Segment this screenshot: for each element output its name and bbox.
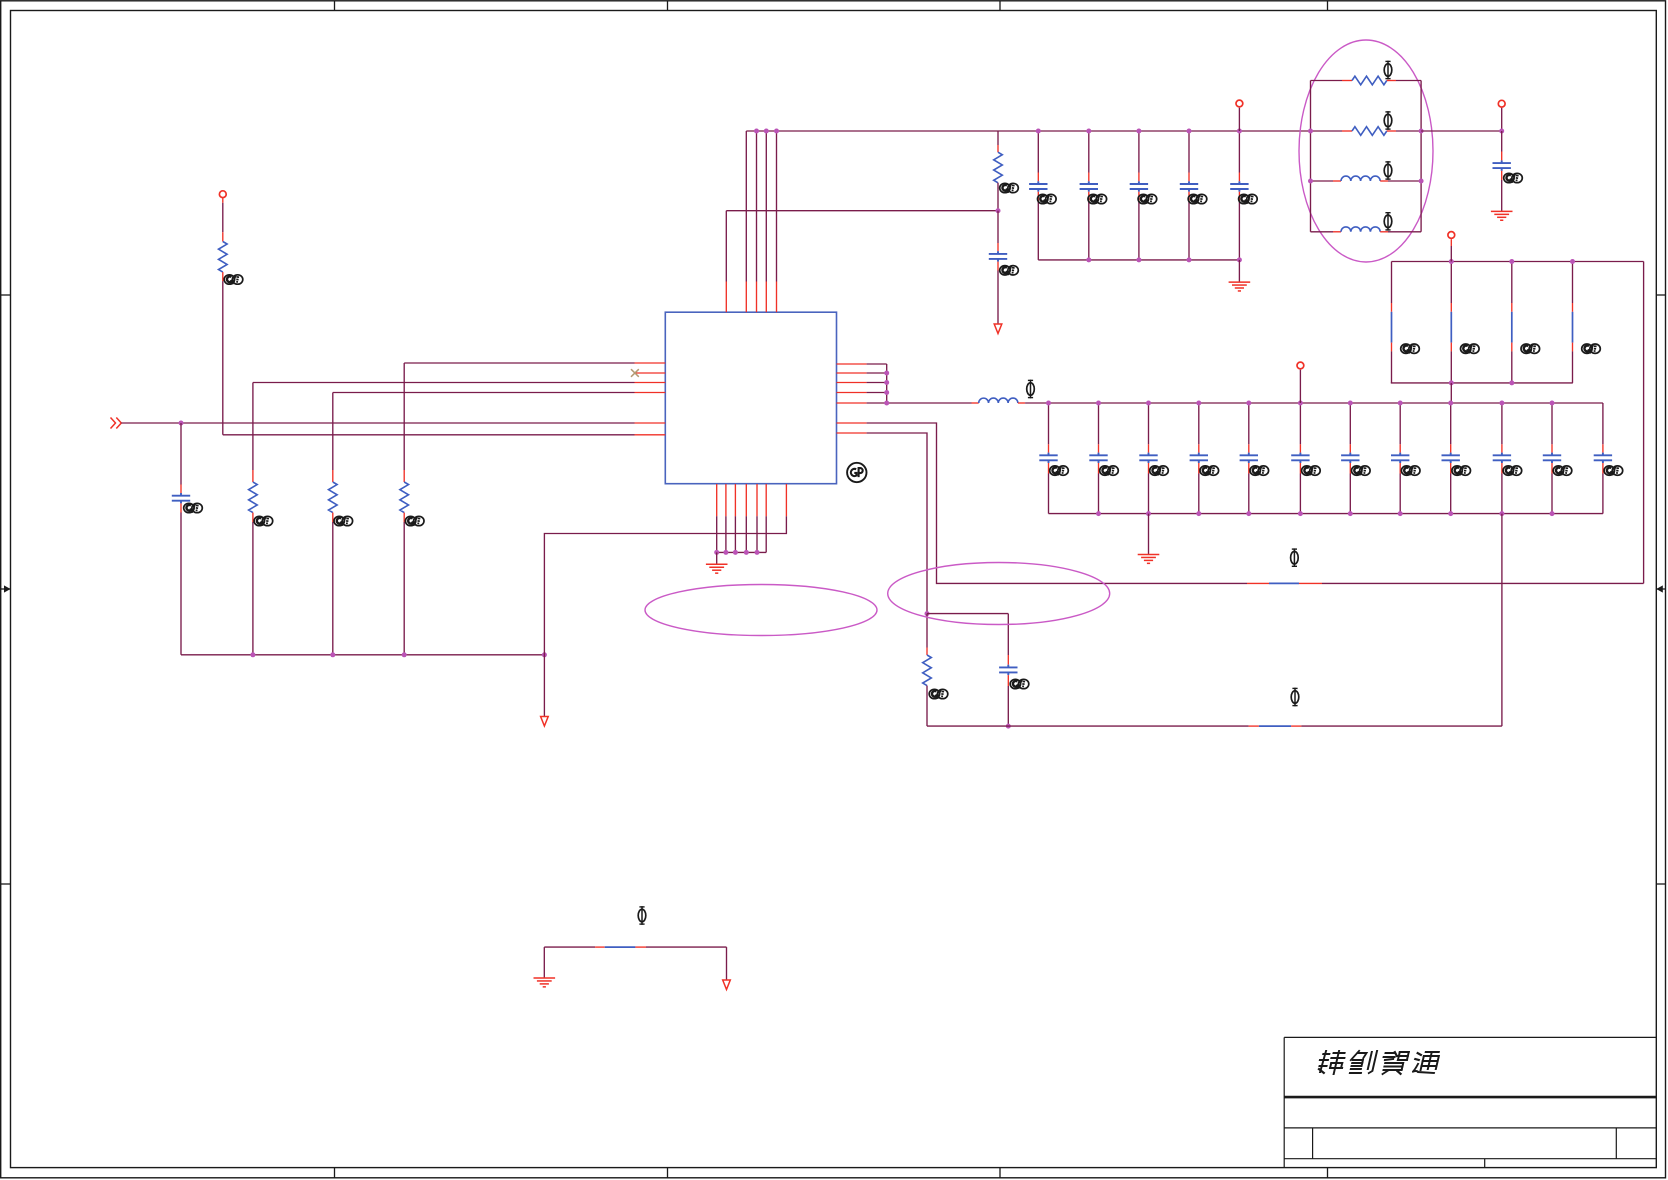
wire U1 left pin1 net y363 xyxy=(404,362,634,364)
ground GND4 xyxy=(1501,207,1503,211)
label C5 value xyxy=(1138,194,1157,204)
net tie wire y947.1 xyxy=(544,946,595,948)
capacitor C5 xyxy=(1138,131,1140,173)
label C6 value xyxy=(1188,194,1207,204)
node cap row bottom rail xyxy=(1448,511,1453,516)
node cap row bottom rail xyxy=(1246,511,1251,516)
jumper J6 xyxy=(1249,725,1259,727)
node rail y131 cap C3 xyxy=(1036,129,1041,134)
node input net x181 xyxy=(179,421,184,426)
label C14 value xyxy=(1302,466,1321,476)
node cap row bottom rail xyxy=(1348,511,1353,516)
wire U1 right pin7 net xyxy=(837,432,867,434)
node cap row top rail xyxy=(1046,401,1051,406)
label C12 value xyxy=(1200,466,1219,476)
label J7 value xyxy=(638,906,646,925)
node cap row top rail xyxy=(1246,401,1251,406)
node 5-cap rail ground xyxy=(1237,257,1242,262)
wire tie box2 to cap rail xyxy=(1450,383,1452,403)
zone ticks right edge xyxy=(1656,295,1665,884)
wire U1 top pin3 riser x756.5 xyxy=(756,131,758,282)
capacitor C21 xyxy=(927,613,1008,615)
node cap row bottom rail xyxy=(1499,511,1504,516)
power arrow A1 xyxy=(994,324,1002,334)
no-connect stub pin2 xyxy=(635,372,666,374)
node cap row bottom rail xyxy=(1398,511,1403,516)
resistor R2 xyxy=(252,383,254,471)
jumper J4 xyxy=(1572,262,1574,304)
junction dots bus x886.7 xyxy=(884,371,889,376)
label C8 value xyxy=(1504,173,1523,183)
resistor R7 rung xyxy=(1311,130,1343,132)
resistor R4 xyxy=(403,363,405,470)
power port P3 xyxy=(1498,100,1505,107)
node cap row bottom rail xyxy=(1146,511,1151,516)
node C21 bottom xyxy=(1006,724,1011,729)
node cap row bottom rail xyxy=(1298,511,1303,516)
wire U1 bottom pin x725.9 xyxy=(725,484,727,516)
wire J6 to drop x1501.9 xyxy=(1301,725,1502,727)
wire 5-cap bottom rail y259.9 xyxy=(1038,259,1239,261)
wire box right rail x1421.1 xyxy=(1420,81,1422,232)
no-connect X xyxy=(631,369,639,377)
inductor L2 rung xyxy=(1311,231,1334,233)
power port P2 xyxy=(1236,100,1243,107)
label J5 value xyxy=(1291,548,1299,567)
capacitor C4 xyxy=(1088,131,1090,173)
label L2 value xyxy=(1384,212,1392,231)
label J1 value xyxy=(1401,344,1420,354)
wire P2 to rail xyxy=(1238,108,1240,131)
jumper J3 xyxy=(1511,262,1513,304)
capacitor C3 xyxy=(1037,131,1039,173)
capacitor C18 xyxy=(1501,403,1503,444)
wire P4 to cap rail xyxy=(1299,370,1301,403)
highlight ellipse E1 xyxy=(1299,40,1433,262)
wire rail y131 right of box xyxy=(1421,130,1502,132)
capacitor C20 xyxy=(1602,403,1604,444)
net tie right drop xyxy=(726,947,728,980)
capacitor C1 xyxy=(180,423,182,485)
label R4 value xyxy=(405,516,424,526)
junction dots box rails xyxy=(1308,129,1313,134)
capacitor C7 xyxy=(1238,131,1240,173)
label J6 value xyxy=(1291,688,1299,707)
wire U1 top pin4 riser x766.3 xyxy=(765,131,767,282)
node bottom pin tie left xyxy=(714,550,719,555)
junction dots on rail y131 xyxy=(754,129,759,134)
node cap row top rail xyxy=(1550,401,1555,406)
node cap row top rail xyxy=(1499,401,1504,406)
net tie left drop xyxy=(543,947,545,978)
label R5 value xyxy=(1000,183,1019,193)
label R3 value xyxy=(334,516,353,526)
resistor R3 xyxy=(332,393,334,471)
wire U1 bottom pin x735.4 xyxy=(734,484,736,516)
wire bottom pin tie y552.4 xyxy=(717,551,767,553)
node cap row top rail xyxy=(1096,401,1101,406)
label C17 value xyxy=(1452,466,1471,476)
capacitor C2 xyxy=(997,211,999,243)
wire U1 left pin6 net y434.8 xyxy=(223,434,635,436)
label C7 value xyxy=(1239,194,1258,204)
label C21 value xyxy=(1010,679,1029,689)
wire right drop x1643.6 xyxy=(1643,262,1645,584)
wire U1 top pin1 riser x726.3 xyxy=(725,211,727,282)
junction dots 5-cap bottom rail xyxy=(1086,257,1091,262)
wire bottom-left rail y654.8 xyxy=(181,654,544,656)
label R8 value xyxy=(929,689,948,699)
label C13 value xyxy=(1250,466,1269,476)
zone ticks top edge xyxy=(335,1,1328,11)
node cap row top rail xyxy=(1298,401,1303,406)
highlight ellipse E3 xyxy=(888,563,1110,625)
node rail y131 cap C4 xyxy=(1086,129,1091,134)
label R6 value xyxy=(1384,61,1392,80)
node cap row top rail xyxy=(1398,401,1403,406)
node cap row top rail xyxy=(1146,401,1151,406)
capacitor C16 xyxy=(1399,403,1401,444)
wire U1 right pin6 net xyxy=(837,422,867,424)
label L3 value xyxy=(1027,380,1035,399)
node cap row bottom rail xyxy=(1550,511,1555,516)
wire U1 bottom pin x716.7 xyxy=(716,484,718,516)
label C1 value xyxy=(184,503,203,513)
jumper J7 xyxy=(595,946,605,948)
power port P1 xyxy=(219,191,226,198)
resistor R8 xyxy=(926,614,928,648)
capacitor C12 xyxy=(1198,403,1200,444)
IC U1 xyxy=(665,312,836,484)
wire bottom net rail y726.1 xyxy=(927,725,1249,727)
wire U1 bottom pin x746.3 xyxy=(745,484,747,516)
label L1 value xyxy=(1384,161,1392,180)
center arrow right edge xyxy=(1656,585,1665,592)
input connector chevrons xyxy=(111,418,122,429)
capacitor C17 xyxy=(1450,403,1452,444)
label C11 value xyxy=(1150,466,1169,476)
ground GND1 xyxy=(716,552,718,564)
label J2 value xyxy=(1461,344,1480,354)
wire P5 to box2 xyxy=(1450,239,1452,246)
inductor L1 rung xyxy=(1311,180,1334,182)
capacitor C9 xyxy=(1048,403,1050,444)
resistor R6 rung xyxy=(1311,80,1343,82)
node rail y131 cap C6 xyxy=(1187,129,1192,134)
jumper J2 xyxy=(1450,262,1452,304)
company logo text 1 xyxy=(1317,1051,1346,1074)
wire box left rail x1310.5 xyxy=(1310,81,1312,232)
node cap row bottom rail xyxy=(1196,511,1201,516)
ground GND3 xyxy=(1148,514,1150,555)
junction dots bottom-left rail xyxy=(250,652,255,657)
zone ticks left edge xyxy=(1,295,11,884)
title block xyxy=(1284,1037,1656,1167)
wire rail VDD top y131 xyxy=(746,130,1310,132)
label J3 value xyxy=(1521,344,1540,354)
power arrow A2 xyxy=(541,717,549,727)
wire U1 bottom pin x757.0 xyxy=(756,484,758,516)
node junction x927 y613.6 xyxy=(925,611,930,616)
node rail y131 cap C7 xyxy=(1237,129,1242,134)
wire cap row top rail y403 xyxy=(1049,402,1603,404)
junction dots bottom pin tie xyxy=(723,550,728,555)
capacitor C19 xyxy=(1551,403,1553,444)
capacitor C15 xyxy=(1349,403,1351,444)
wire U1 top pin2 riser x746.3 xyxy=(745,131,747,282)
resistor R1 xyxy=(222,198,224,203)
label R2 value xyxy=(254,516,273,526)
node cap row bottom rail xyxy=(1096,511,1101,516)
label C10 value xyxy=(1100,466,1119,476)
power arrow A3 xyxy=(723,980,731,990)
label C16 value xyxy=(1401,466,1420,476)
junction dots box2 bottom rail xyxy=(1449,380,1454,385)
capacitor C8 xyxy=(1501,108,1503,131)
marker GP xyxy=(847,463,866,482)
zone ticks bottom edge xyxy=(335,1168,1328,1178)
label C15 value xyxy=(1352,466,1371,476)
jumper J5 xyxy=(1247,582,1269,584)
capacitor C11 xyxy=(1148,403,1150,444)
wire bus vertical x886.7 xyxy=(886,364,888,403)
capacitor C13 xyxy=(1248,403,1250,444)
label C20 value xyxy=(1604,466,1623,476)
inductor L3 xyxy=(972,402,979,404)
label C9 value xyxy=(1050,466,1069,476)
wire cap row bottom rail y513.6 xyxy=(1049,513,1603,515)
node cap row top rail xyxy=(1448,401,1453,406)
wire box2 bottom rail y382.9 xyxy=(1391,382,1573,384)
node cap row top rail xyxy=(1196,401,1201,406)
capacitor C14 xyxy=(1299,403,1301,444)
node cap row top rail xyxy=(1348,401,1353,406)
wire U1 left pin3 net y382.5 xyxy=(253,382,635,384)
power port P4 xyxy=(1297,362,1304,369)
net tie wire right xyxy=(646,946,727,948)
wire cap row drop x1501.9 xyxy=(1501,514,1503,727)
bus right of U1 pins1-4 xyxy=(837,363,867,365)
label C19 value xyxy=(1553,466,1572,476)
wire U1 bottom pin7 net xyxy=(785,484,787,516)
wire J5 to right drop xyxy=(1322,582,1644,584)
ground GND5 xyxy=(534,978,556,987)
label C3 value xyxy=(1038,194,1057,204)
junction dots box2 top rail xyxy=(1449,259,1454,264)
wire box2 top rail y261.5 xyxy=(1392,261,1644,263)
wire U1 bottom pin x766.2 xyxy=(765,484,767,516)
capacitor C10 xyxy=(1098,403,1100,444)
center arrow left edge xyxy=(1,585,11,592)
highlight ellipse E2 xyxy=(645,585,877,636)
wire input net y423 xyxy=(121,422,634,424)
capacitor C6 xyxy=(1188,131,1190,173)
wire branch y210.7 xyxy=(726,210,998,212)
wire U1 right pin5 net y403 xyxy=(837,402,867,404)
node junction R5/C2 xyxy=(996,208,1001,213)
label C4 value xyxy=(1088,194,1107,204)
label R1 value xyxy=(224,275,243,285)
ground GND2 xyxy=(1238,260,1240,282)
jumper J1 xyxy=(1391,262,1393,304)
node rail y131 cap C5 xyxy=(1136,129,1141,134)
label J4 value xyxy=(1582,344,1601,354)
label C2 value xyxy=(1000,266,1019,276)
power port P5 xyxy=(1448,232,1455,239)
label C18 value xyxy=(1503,466,1522,476)
wire U1 top pin5 riser x776.5 xyxy=(776,131,778,282)
label R7 value xyxy=(1384,111,1392,130)
resistor R5 xyxy=(997,131,999,145)
wire U1 left pin4 net y392.5 xyxy=(333,392,635,394)
